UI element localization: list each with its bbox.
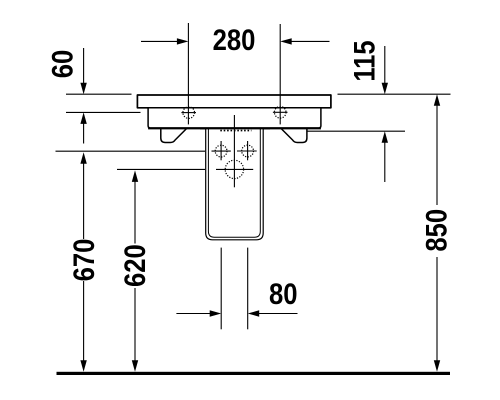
dimension 850 line lower: [436, 257, 438, 361]
dimension 80 left arrow: [176, 313, 210, 315]
right wall-hook: [281, 129, 307, 143]
washbasin lower tier: [148, 108, 321, 128]
dimension 80 right arrow: [258, 313, 297, 315]
extension line basin bottom right: [307, 130, 406, 132]
dimension 60 lower arrow: [83, 123, 85, 144]
svg-text:115: 115: [348, 40, 381, 81]
dimension 620 line lower: [134, 288, 136, 361]
left wall-hook: [161, 129, 187, 143]
drain hole: [216, 160, 253, 178]
pedestal column outer wall: [206, 129, 264, 240]
basin bottom edge over column: [200, 128, 270, 130]
dimension 850 line upper: [436, 105, 438, 205]
svg-text:850: 850: [420, 209, 453, 252]
column fixing hole left: [212, 141, 231, 160]
dimension 280 right arrow line: [291, 40, 330, 42]
floor line: [57, 372, 451, 375]
washbasin top band: [137, 95, 331, 108]
pedestal column inner wall: [208, 129, 260, 237]
extension line basin top right: [338, 93, 451, 95]
extension line drain level left: [117, 168, 205, 170]
svg-text:280: 280: [213, 23, 256, 56]
basin tap hole right: [273, 107, 288, 119]
dimension 80 right extension vertical: [247, 248, 249, 330]
dimension 60 upper arrow: [83, 48, 85, 84]
dimension 620 line upper: [134, 181, 136, 243]
dimension 115 lower arrow: [384, 142, 386, 182]
dimension 115 upper arrow: [384, 46, 386, 84]
dimension 280 left arrow line: [141, 40, 178, 42]
svg-text:80: 80: [269, 277, 298, 310]
svg-text:620: 620: [118, 244, 151, 287]
dotted overflow line at column top: [220, 130, 251, 132]
extension line fixing hole level left: [56, 150, 206, 152]
basin bottom edge across: [148, 128, 321, 130]
dimension 280 right extension vertical: [279, 24, 281, 124]
basin tap hole left: [181, 107, 196, 119]
dimension 280 left extension vertical: [187, 23, 189, 124]
extension line basin top left: [66, 93, 132, 95]
dimension 670 line lower: [83, 281, 85, 361]
svg-text:670: 670: [67, 239, 100, 282]
dimension 670 line upper: [83, 163, 85, 239]
extension line tap hole level left: [66, 111, 141, 113]
dimension 80 left extension vertical: [220, 248, 222, 330]
center line: [233, 115, 235, 187]
column fixing hole right: [237, 141, 257, 160]
svg-text:60: 60: [46, 50, 79, 79]
